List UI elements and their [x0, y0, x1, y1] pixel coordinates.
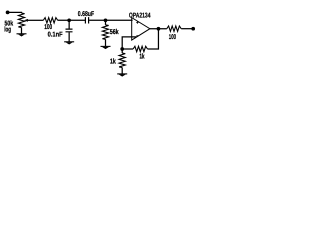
svg-text:100: 100 [44, 24, 52, 31]
svg-text:OPA2134: OPA2134 [129, 13, 151, 20]
svg-text:1k: 1k [110, 57, 116, 65]
svg-text:log: log [4, 26, 11, 34]
svg-text:0.68uF: 0.68uF [78, 11, 95, 18]
svg-text:1k: 1k [140, 52, 145, 60]
svg-text:100: 100 [169, 34, 176, 41]
svg-text:0.1nF: 0.1nF [48, 31, 64, 38]
svg-text:56k: 56k [110, 28, 119, 36]
